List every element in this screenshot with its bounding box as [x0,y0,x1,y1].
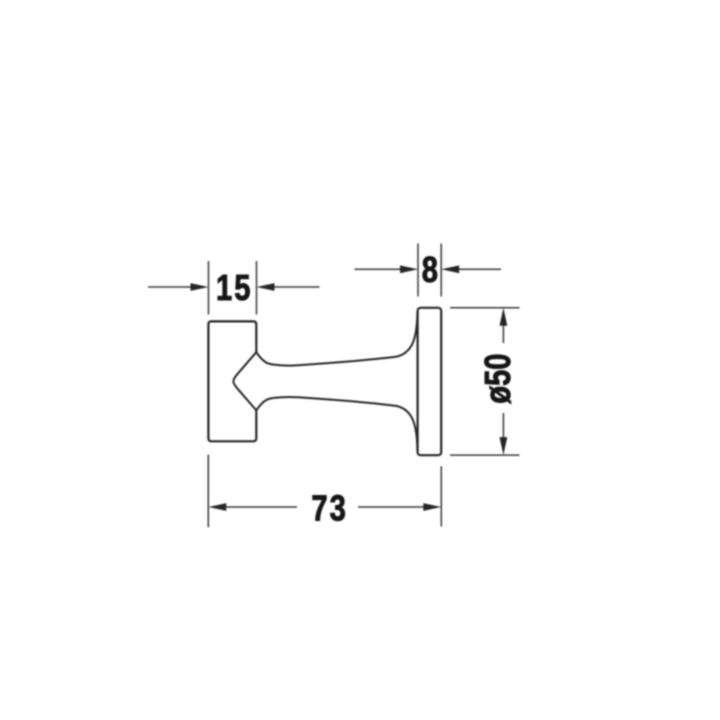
cone edge notch (upper) [233,352,256,381]
svg-text:15: 15 [216,267,252,308]
dim 8 : extension lines [418,244,441,297]
wall plate (15 mm) [208,321,256,441]
disc face (ø50, 8 mm) [418,308,442,455]
dim o50 : vertical line bottom segment [502,413,504,441]
dim 73 : extension lines [208,455,441,528]
dim 15 : dimension line right tail [272,286,320,288]
dim o50 : bottom arrow [500,437,508,455]
dim 15 : right arrow [257,283,275,291]
dim 8 : dimension line left tail [355,268,403,270]
dim 73 : dimension line left segment [225,506,297,508]
dim o50 : extension lines [450,308,520,455]
svg-text:73: 73 [311,488,347,529]
dim 8 : dimension line right tail [457,268,501,270]
dim 8 : left arrow [400,265,418,273]
dim o50 : vertical line top segment [502,322,504,343]
stem top outline [256,312,417,366]
stem bottom outline [256,397,417,451]
cone edge notch (lower) [233,381,256,410]
dim 15 : dimension line left tail [148,286,193,288]
svg-text:8: 8 [422,249,438,290]
dim 15 : left arrow [191,283,209,291]
dim o50 : top arrow [500,308,508,326]
dim 73 : left arrow (points left/outward) [208,503,226,511]
dim 73 : right arrow (points right/outward) [423,503,441,511]
dim 73 : dimension line right segment [358,506,425,508]
svg-text:ø50: ø50 [477,353,518,403]
dim 8 : right arrow [441,265,459,273]
dim 15 : extension lines [209,261,257,315]
